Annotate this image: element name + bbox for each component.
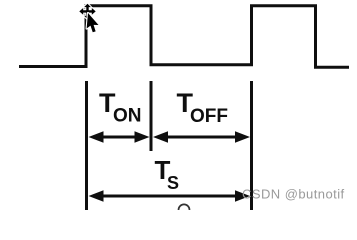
partial circle at bottom	[179, 204, 190, 215]
svg-text:S: S	[167, 173, 179, 193]
wire waveform square wave	[19, 6, 349, 68]
arrow T_ON	[89, 131, 150, 143]
svg-text:OFF: OFF	[190, 106, 228, 127]
cursor move cross icon	[79, 4, 95, 19]
arrow T_S	[89, 190, 251, 202]
dimension line right (rising edge 2)	[250, 81, 253, 210]
svg-text:ON: ON	[113, 105, 142, 126]
arrow T_OFF	[153, 131, 250, 143]
svg-text:CSDN @butnotif: CSDN @butnotif	[242, 187, 345, 202]
cursor pointer arrow	[86, 13, 99, 33]
dimension line middle (falling edge 1)	[150, 81, 153, 151]
dimension line left (rising edge 1)	[85, 81, 88, 210]
